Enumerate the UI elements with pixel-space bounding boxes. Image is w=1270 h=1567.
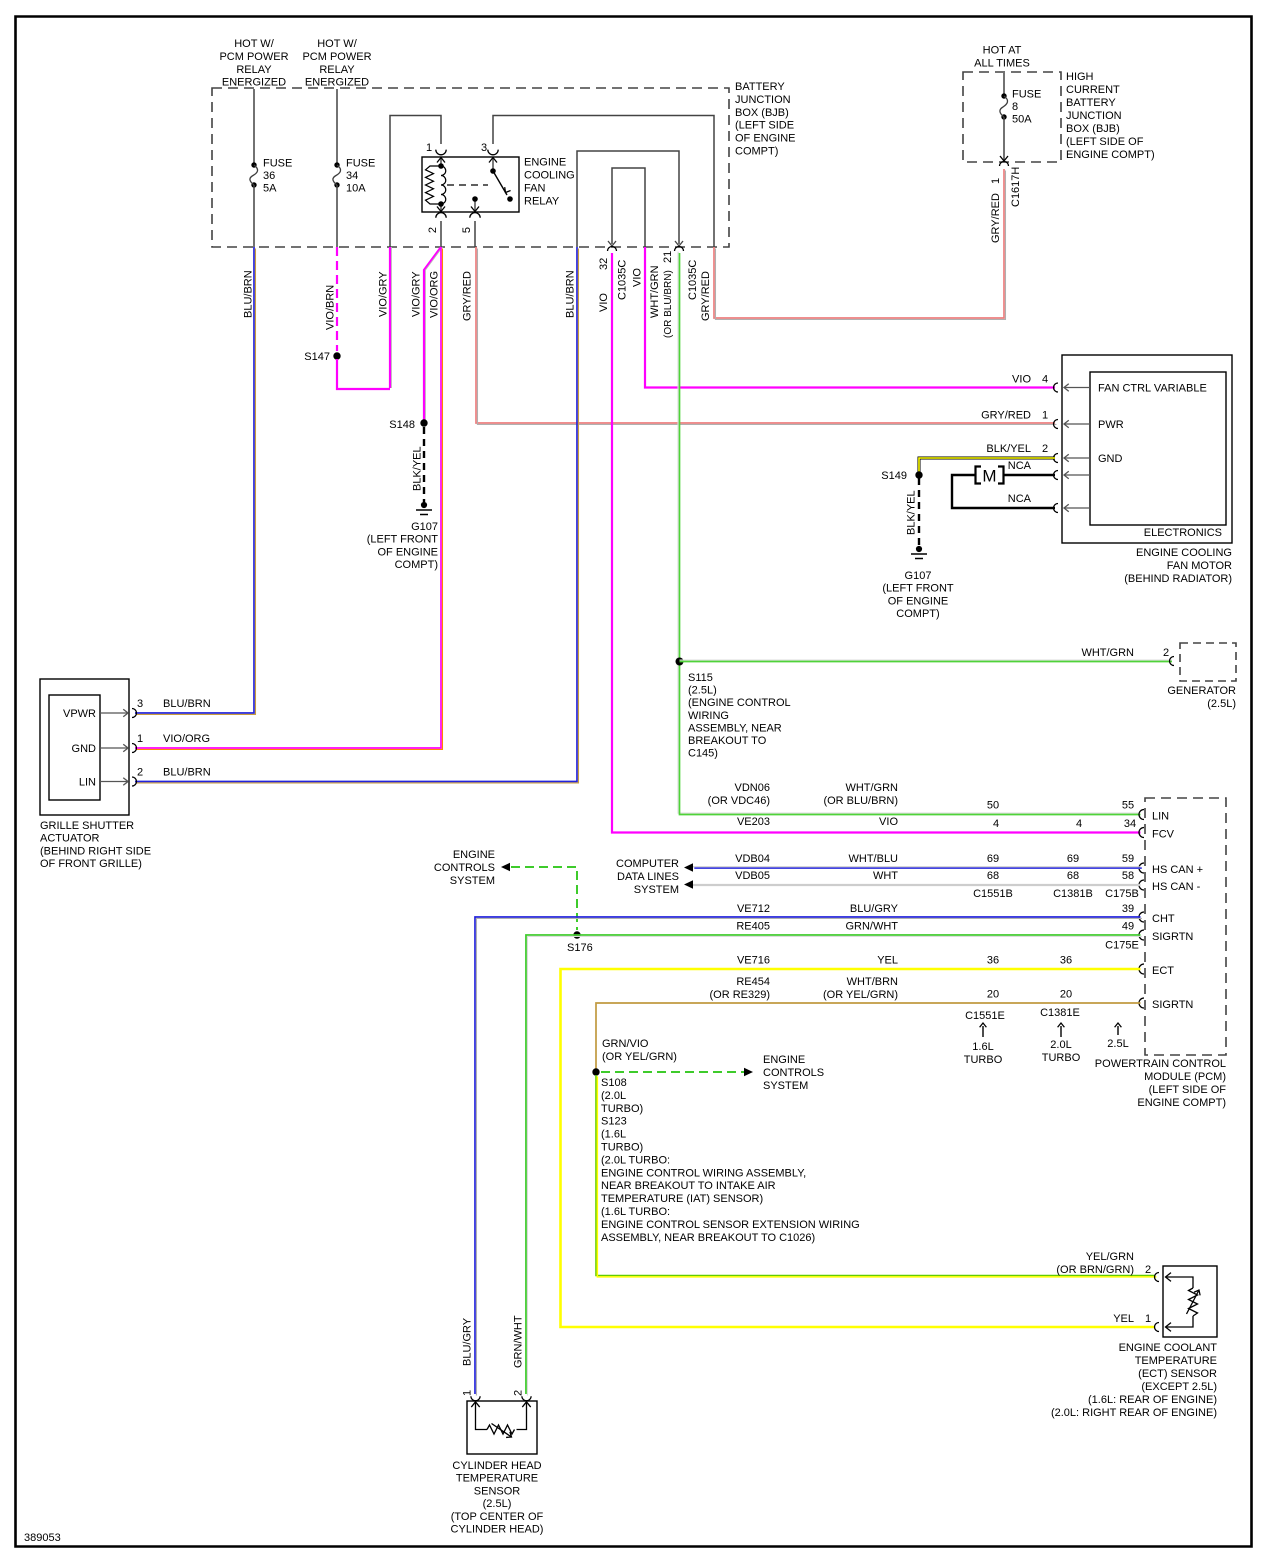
svg-text:GND: GND bbox=[1098, 453, 1123, 465]
wire S147 to VIO/GRY bbox=[337, 359, 390, 389]
connector C1035C pin 21 (arrow and arc) bbox=[675, 241, 683, 246]
relay switch contact dot bbox=[507, 196, 513, 202]
svg-text:(OR YEL/GRN): (OR YEL/GRN) bbox=[823, 989, 898, 1001]
svg-text:BLK/YEL: BLK/YEL bbox=[986, 443, 1031, 455]
svg-text:(2.0L: RIGHT REAR OF ENGINE): (2.0L: RIGHT REAR OF ENGINE) bbox=[1051, 1407, 1217, 1419]
svg-text:SYSTEM: SYSTEM bbox=[763, 1080, 808, 1092]
svg-text:ENGINE COMPT): ENGINE COMPT) bbox=[1137, 1097, 1226, 1109]
svg-text:ENGINE COMPT): ENGINE COMPT) bbox=[1066, 149, 1155, 161]
wire BLK/YEL S148 to ground (dashed) bbox=[423, 427, 425, 502]
svg-text:(BEHIND RIGHT SIDE: (BEHIND RIGHT SIDE bbox=[40, 845, 151, 857]
svg-text:VE712: VE712 bbox=[737, 903, 770, 915]
engine cooling fan motor outer box bbox=[1062, 355, 1232, 543]
svg-text:69: 69 bbox=[1067, 853, 1079, 865]
svg-text:5: 5 bbox=[461, 227, 473, 233]
svg-text:BLK/YEL: BLK/YEL bbox=[412, 446, 424, 491]
svg-text:BLU/BRN: BLU/BRN bbox=[243, 270, 255, 318]
svg-text:HOT AT: HOT AT bbox=[983, 45, 1022, 57]
wire GRY/RED relay pin5 to fan PWR bbox=[476, 247, 1056, 424]
ECT thermistor zigzag bbox=[1189, 1288, 1198, 1316]
svg-text:COMPT): COMPT) bbox=[896, 608, 939, 620]
splice S148 bbox=[420, 419, 427, 426]
splice S176 bbox=[573, 931, 580, 938]
svg-text:DATA LINES: DATA LINES bbox=[617, 871, 679, 883]
svg-text:OF ENGINE: OF ENGINE bbox=[888, 595, 949, 607]
ground G107 (left) bbox=[421, 502, 427, 508]
svg-text:TURBO): TURBO) bbox=[601, 1142, 643, 1154]
svg-text:(LEFT SIDE OF: (LEFT SIDE OF bbox=[1149, 1084, 1227, 1096]
svg-text:ENERGIZED: ENERGIZED bbox=[222, 77, 286, 89]
svg-text:VE203: VE203 bbox=[737, 816, 770, 828]
svg-text:4: 4 bbox=[993, 818, 999, 830]
svg-text:C1035C: C1035C bbox=[687, 260, 699, 300]
svg-text:S148: S148 bbox=[389, 419, 415, 431]
interior wire BLU/BRN riser (LIN feed) bbox=[577, 151, 679, 247]
svg-text:389053: 389053 bbox=[24, 1532, 61, 1544]
arrow 2.0L turbo bbox=[1060, 1026, 1062, 1037]
relay pin 5 connector arc bbox=[470, 213, 480, 218]
svg-text:GRY/RED: GRY/RED bbox=[981, 410, 1031, 422]
grille shutter actuator outer box bbox=[40, 679, 129, 815]
svg-text:NEAR BREAKOUT TO INTAKE AIR: NEAR BREAKOUT TO INTAKE AIR bbox=[601, 1180, 776, 1192]
svg-text:WHT/BRN: WHT/BRN bbox=[847, 976, 898, 988]
ECT interior wiring and arrows bbox=[1166, 1277, 1193, 1288]
svg-text:8: 8 bbox=[1012, 101, 1018, 113]
svg-text:ENGINE: ENGINE bbox=[524, 157, 566, 169]
svg-text:10A: 10A bbox=[346, 183, 366, 195]
ECT thermistor arrow bbox=[1187, 1290, 1200, 1314]
svg-text:2: 2 bbox=[427, 227, 439, 233]
svg-text:WHT/GRN: WHT/GRN bbox=[649, 265, 661, 318]
svg-text:OF ENGINE: OF ENGINE bbox=[735, 133, 796, 145]
arrow to engine controls system (lower) bbox=[744, 1068, 753, 1076]
svg-text:(1.6L TURBO:: (1.6L TURBO: bbox=[601, 1206, 670, 1218]
relay coil scallops bbox=[441, 166, 446, 204]
svg-text:34: 34 bbox=[346, 170, 358, 182]
svg-text:C1551E: C1551E bbox=[965, 1010, 1005, 1022]
CHT interior wiring and arrows bbox=[476, 1402, 488, 1430]
svg-text:VIO/GRY: VIO/GRY bbox=[378, 271, 390, 317]
svg-text:VDB05: VDB05 bbox=[735, 870, 770, 882]
fuse 34 feed wire bbox=[336, 89, 338, 163]
wire VIO/BRN fuse34 to splice S147 (dashed) bbox=[336, 247, 338, 351]
svg-text:WHT/BLU: WHT/BLU bbox=[849, 853, 899, 865]
arrow to engine controls system (upper) bbox=[501, 863, 510, 871]
svg-text:SIGRTN: SIGRTN bbox=[1152, 931, 1193, 943]
svg-text:3: 3 bbox=[137, 698, 143, 710]
svg-text:BOX (BJB): BOX (BJB) bbox=[735, 107, 789, 119]
wire BLU/BRN to grille LIN bbox=[135, 247, 578, 783]
relay pin 2 connector arc bbox=[436, 213, 446, 218]
PCM pins (arcs and pin names) bbox=[1139, 810, 1144, 820]
svg-text:VIO/ORG: VIO/ORG bbox=[163, 733, 210, 745]
svg-text:68: 68 bbox=[1067, 870, 1079, 882]
svg-text:(LEFT SIDE OF: (LEFT SIDE OF bbox=[1066, 136, 1144, 148]
svg-text:S176: S176 bbox=[567, 942, 593, 954]
wire relay pin3 to BJB right (interior) bbox=[493, 116, 714, 248]
svg-text:(1.6L: REAR OF ENGINE): (1.6L: REAR OF ENGINE) bbox=[1088, 1394, 1217, 1406]
svg-text:ENGINE CONTROL WIRING ASSEMBLY: ENGINE CONTROL WIRING ASSEMBLY, bbox=[601, 1167, 806, 1179]
svg-text:RELAY: RELAY bbox=[524, 196, 560, 208]
svg-text:FCV: FCV bbox=[1152, 829, 1175, 841]
wire WHT/GRN S115 to generator bbox=[680, 659, 1173, 661]
svg-text:ENGINE: ENGINE bbox=[763, 1054, 805, 1066]
relay pin 1 interior stub with arrow bbox=[440, 158, 442, 166]
wire GRN/VIO S108 to ECT sensor bbox=[596, 1075, 1156, 1277]
svg-text:RELAY: RELAY bbox=[319, 64, 355, 76]
svg-text:BATTERY: BATTERY bbox=[1066, 97, 1116, 109]
svg-text:3: 3 bbox=[481, 142, 487, 154]
wire YEL PCM ECT to ECT sensor bbox=[561, 969, 1156, 1327]
svg-text:FUSE: FUSE bbox=[346, 158, 375, 170]
svg-text:GRY/RED: GRY/RED bbox=[462, 271, 474, 321]
svg-text:5A: 5A bbox=[263, 183, 277, 195]
svg-text:(LEFT FRONT: (LEFT FRONT bbox=[367, 534, 439, 546]
wire VIO/GRY relay pin2 to splice S148 bbox=[424, 247, 441, 420]
svg-text:NCA: NCA bbox=[1008, 460, 1032, 472]
svg-text:VIO: VIO bbox=[632, 268, 644, 287]
ECT pin 2 arc bbox=[1155, 1273, 1159, 1282]
svg-text:VIO/GRY: VIO/GRY bbox=[411, 271, 423, 317]
svg-text:C175B: C175B bbox=[1105, 888, 1139, 900]
svg-text:SYSTEM: SYSTEM bbox=[634, 884, 679, 896]
wire GRN/WHT CHT sensor to PCM SIGRTN bbox=[526, 935, 1141, 1394]
svg-text:GRY/RED: GRY/RED bbox=[700, 271, 712, 321]
svg-text:ECT: ECT bbox=[1152, 965, 1174, 977]
svg-text:(TOP CENTER OF: (TOP CENTER OF bbox=[451, 1511, 544, 1523]
svg-text:JUNCTION: JUNCTION bbox=[735, 94, 791, 106]
svg-text:32: 32 bbox=[598, 258, 610, 270]
wire BLU/BRN fuse36 to grille VPWR bbox=[135, 247, 255, 714]
engine coolant temperature (ECT) sensor box bbox=[1163, 1266, 1217, 1337]
svg-text:COMPT): COMPT) bbox=[395, 559, 438, 571]
wire GRN/WHT dashed to engine controls bbox=[511, 867, 577, 930]
svg-text:(LEFT FRONT: (LEFT FRONT bbox=[882, 583, 954, 595]
svg-text:68: 68 bbox=[987, 870, 999, 882]
svg-text:(EXCEPT 2.5L): (EXCEPT 2.5L) bbox=[1141, 1381, 1217, 1393]
svg-text:BLK/YEL: BLK/YEL bbox=[906, 490, 918, 535]
svg-text:(2.5L): (2.5L) bbox=[688, 685, 717, 697]
svg-text:COOLING: COOLING bbox=[524, 170, 575, 182]
svg-text:VDN06: VDN06 bbox=[735, 782, 770, 794]
svg-text:TEMPERATURE: TEMPERATURE bbox=[1135, 1355, 1217, 1367]
svg-text:ENGINE: ENGINE bbox=[453, 849, 495, 861]
svg-text:BATTERY: BATTERY bbox=[735, 81, 785, 93]
wire fuse 34 to BJB edge bbox=[336, 185, 338, 247]
fan motor pins (arcs, interior arrows, pin names) bbox=[1054, 383, 1059, 392]
arrow to computer data lines (VDB04) bbox=[684, 863, 693, 871]
svg-text:(1.6L: (1.6L bbox=[601, 1129, 626, 1141]
svg-text:YEL/GRN: YEL/GRN bbox=[1086, 1251, 1134, 1263]
svg-text:2.5L: 2.5L bbox=[1107, 1038, 1128, 1050]
svg-text:RE454: RE454 bbox=[736, 976, 770, 988]
splice S108 bbox=[592, 1068, 599, 1075]
svg-text:RELAY: RELAY bbox=[236, 64, 272, 76]
wire WHT/BLU VDB04 to PCM HS CAN + bbox=[693, 867, 1142, 868]
ECT pin 1 arc bbox=[1155, 1323, 1159, 1332]
svg-text:HOT W/: HOT W/ bbox=[317, 38, 357, 50]
svg-text:(OR BRN/GRN): (OR BRN/GRN) bbox=[1056, 1264, 1134, 1276]
svg-text:NCA: NCA bbox=[1008, 493, 1032, 505]
svg-text:36: 36 bbox=[263, 170, 275, 182]
svg-text:ALL TIMES: ALL TIMES bbox=[974, 58, 1030, 70]
generator dashed box bbox=[1180, 643, 1236, 681]
svg-text:36: 36 bbox=[987, 955, 999, 967]
svg-text:BLU/GRY: BLU/GRY bbox=[462, 1317, 474, 1366]
svg-text:VIO: VIO bbox=[879, 816, 898, 828]
fuse 36 feed wire bbox=[253, 89, 255, 163]
svg-text:C1381B: C1381B bbox=[1053, 888, 1093, 900]
svg-text:HOT W/: HOT W/ bbox=[234, 38, 274, 50]
svg-text:HIGH: HIGH bbox=[1066, 71, 1094, 83]
wire NCA loop to lower pin (thick) bbox=[952, 475, 1055, 508]
svg-text:ELECTRONICS: ELECTRONICS bbox=[1144, 527, 1222, 539]
connector C1617H arc bbox=[1000, 162, 1009, 167]
svg-text:G107: G107 bbox=[905, 570, 932, 582]
svg-text:FAN: FAN bbox=[524, 183, 545, 195]
high current BJB dashed outline bbox=[963, 72, 1061, 162]
svg-text:(ECT) SENSOR: (ECT) SENSOR bbox=[1138, 1368, 1217, 1380]
fuse F8 (8, 50A) bbox=[1001, 93, 1006, 98]
svg-text:VIO/BRN: VIO/BRN bbox=[325, 285, 337, 330]
relay pin 3 interior stub with arrow bbox=[492, 158, 494, 171]
svg-text:HS CAN +: HS CAN + bbox=[1152, 864, 1203, 876]
svg-text:(OR BLU/BRN): (OR BLU/BRN) bbox=[663, 270, 674, 338]
svg-text:TURBO: TURBO bbox=[964, 1054, 1003, 1066]
svg-text:CHT: CHT bbox=[1152, 913, 1175, 925]
fan motor electronics inner box bbox=[1090, 372, 1226, 525]
svg-text:GRN/WHT: GRN/WHT bbox=[513, 1315, 525, 1368]
svg-text:ENERGIZED: ENERGIZED bbox=[305, 77, 369, 89]
svg-text:WHT: WHT bbox=[873, 870, 898, 882]
svg-text:M: M bbox=[982, 467, 996, 486]
svg-text:(2.0L: (2.0L bbox=[601, 1090, 626, 1102]
svg-text:VDB04: VDB04 bbox=[735, 853, 770, 865]
svg-text:GRN/WHT: GRN/WHT bbox=[845, 921, 898, 933]
svg-text:BOX (BJB): BOX (BJB) bbox=[1066, 123, 1120, 135]
svg-text:2: 2 bbox=[1163, 647, 1169, 659]
wire VIO/GRY relay pin1 branch bbox=[389, 247, 391, 388]
svg-text:OF FRONT GRILLE): OF FRONT GRILLE) bbox=[40, 858, 142, 870]
svg-text:S115: S115 bbox=[688, 672, 713, 684]
svg-text:1: 1 bbox=[137, 733, 143, 745]
svg-text:POWERTRAIN CONTROL: POWERTRAIN CONTROL bbox=[1095, 1058, 1226, 1070]
svg-text:20: 20 bbox=[1060, 989, 1072, 1001]
interior wire VIO riser pair bbox=[612, 168, 645, 247]
svg-text:LIN: LIN bbox=[1152, 811, 1169, 823]
svg-text:BLU/BRN: BLU/BRN bbox=[163, 767, 211, 779]
relay pin 2 interior stub with arrow bbox=[440, 204, 442, 211]
svg-text:(2.0L TURBO:: (2.0L TURBO: bbox=[601, 1154, 670, 1166]
svg-text:VPWR: VPWR bbox=[63, 708, 96, 720]
svg-text:69: 69 bbox=[987, 853, 999, 865]
svg-text:(2.5L): (2.5L) bbox=[483, 1498, 512, 1510]
svg-text:2: 2 bbox=[1042, 443, 1048, 455]
svg-text:20: 20 bbox=[987, 989, 999, 1001]
svg-text:36: 36 bbox=[1060, 955, 1072, 967]
wire fuse 36 to BJB edge bbox=[253, 185, 255, 247]
svg-text:TEMPERATURE (IAT) SENSOR): TEMPERATURE (IAT) SENSOR) bbox=[601, 1193, 763, 1205]
svg-text:(OR RE329): (OR RE329) bbox=[709, 989, 770, 1001]
svg-text:MODULE (PCM): MODULE (PCM) bbox=[1144, 1071, 1226, 1083]
svg-text:VIO: VIO bbox=[1012, 374, 1031, 386]
svg-text:TURBO: TURBO bbox=[1042, 1052, 1081, 1064]
fuse 8 feed wire bbox=[1003, 73, 1005, 94]
svg-text:PCM POWER: PCM POWER bbox=[302, 51, 371, 63]
powertrain control module (PCM) dashed box bbox=[1145, 798, 1226, 1055]
svg-text:SENSOR: SENSOR bbox=[474, 1485, 521, 1497]
svg-text:(2.5L): (2.5L) bbox=[1207, 698, 1236, 710]
arrow 1.6L turbo bbox=[982, 1026, 984, 1037]
wire VIO pin32 to PCM FCV bbox=[612, 253, 1141, 833]
svg-text:(OR VDC46): (OR VDC46) bbox=[708, 795, 770, 807]
grille shutter actuator inner box bbox=[49, 695, 100, 800]
svg-text:1.6L: 1.6L bbox=[972, 1041, 993, 1053]
fuse F34 (34, 10A) bbox=[334, 162, 339, 167]
svg-text:BLU/BRN: BLU/BRN bbox=[565, 270, 577, 318]
wire relay pin1 to BJB edge (interior) bbox=[390, 116, 441, 248]
svg-text:LIN: LIN bbox=[79, 777, 96, 789]
svg-text:GENERATOR: GENERATOR bbox=[1167, 685, 1236, 697]
wire VIO to fan control bbox=[645, 247, 1055, 388]
splice S147 bbox=[333, 352, 340, 359]
relay pin 5 interior stub with arrow bbox=[474, 199, 476, 211]
svg-text:1: 1 bbox=[1145, 1313, 1151, 1325]
svg-text:1: 1 bbox=[426, 142, 432, 154]
svg-text:(BEHIND RADIATOR): (BEHIND RADIATOR) bbox=[1124, 573, 1232, 585]
svg-text:BREAKOUT TO: BREAKOUT TO bbox=[688, 735, 767, 747]
svg-text:2: 2 bbox=[1145, 1264, 1151, 1276]
svg-text:ASSEMBLY, NEAR: ASSEMBLY, NEAR bbox=[688, 722, 782, 734]
svg-text:C1035C: C1035C bbox=[617, 260, 629, 300]
wire GRY/RED BJB to fuse8 C1617H bbox=[714, 169, 1005, 319]
svg-text:FAN CTRL VARIABLE: FAN CTRL VARIABLE bbox=[1098, 383, 1207, 395]
svg-text:FUSE: FUSE bbox=[263, 158, 292, 170]
svg-text:S123: S123 bbox=[601, 1116, 627, 1128]
svg-text:C145): C145) bbox=[688, 748, 718, 760]
svg-text:1: 1 bbox=[990, 178, 1002, 184]
svg-text:COMPT): COMPT) bbox=[735, 146, 778, 158]
svg-text:C1617H: C1617H bbox=[1010, 167, 1022, 207]
svg-text:VIO: VIO bbox=[598, 293, 610, 312]
svg-text:(OR YEL/GRN): (OR YEL/GRN) bbox=[602, 1051, 677, 1063]
svg-text:4: 4 bbox=[1042, 374, 1048, 386]
svg-text:S108: S108 bbox=[601, 1077, 627, 1089]
svg-text:1: 1 bbox=[1042, 410, 1048, 422]
svg-text:OF ENGINE: OF ENGINE bbox=[377, 546, 438, 558]
svg-text:SIGRTN: SIGRTN bbox=[1152, 999, 1193, 1011]
relay internal dashed link bbox=[447, 184, 488, 186]
svg-text:ASSEMBLY, NEAR BREAKOUT TO C10: ASSEMBLY, NEAR BREAKOUT TO C1026) bbox=[601, 1232, 815, 1244]
battery junction box (BJB) dashed outline bbox=[212, 88, 729, 247]
svg-text:PCM POWER: PCM POWER bbox=[219, 51, 288, 63]
svg-text:G107: G107 bbox=[411, 521, 438, 533]
svg-text:GRN/VIO: GRN/VIO bbox=[602, 1038, 649, 1050]
fuse F36 (36, 5A) bbox=[251, 162, 256, 167]
svg-text:WHT/GRN: WHT/GRN bbox=[1081, 647, 1134, 659]
generator pin 2 arc bbox=[1170, 657, 1175, 666]
svg-text:CURRENT: CURRENT bbox=[1066, 84, 1120, 96]
svg-text:2: 2 bbox=[513, 1390, 525, 1396]
wire WHT VDB05 to PCM HS CAN - bbox=[693, 884, 1141, 886]
svg-text:CYLINDER HEAD: CYLINDER HEAD bbox=[452, 1460, 541, 1472]
wire fuse 8 to C1617H bbox=[1003, 117, 1005, 160]
svg-text:50A: 50A bbox=[1012, 114, 1032, 126]
svg-text:YEL: YEL bbox=[877, 955, 898, 967]
engine cooling fan relay box bbox=[422, 157, 519, 212]
svg-text:C175E: C175E bbox=[1105, 940, 1139, 952]
svg-text:C1551B: C1551B bbox=[973, 888, 1013, 900]
svg-text:4: 4 bbox=[1076, 818, 1082, 830]
svg-text:BLU/BRN: BLU/BRN bbox=[163, 698, 211, 710]
svg-text:FUSE: FUSE bbox=[1012, 89, 1041, 101]
svg-text:FAN MOTOR: FAN MOTOR bbox=[1167, 560, 1232, 572]
wire BLU/GRY CHT sensor to PCM CHT bbox=[475, 917, 1142, 1395]
splice S149 bbox=[915, 471, 922, 478]
svg-text:(OR BLU/BRN): (OR BLU/BRN) bbox=[823, 795, 898, 807]
svg-text:S149: S149 bbox=[881, 470, 907, 482]
svg-text:C1381E: C1381E bbox=[1040, 1007, 1080, 1019]
svg-text:JUNCTION: JUNCTION bbox=[1066, 110, 1122, 122]
svg-text:55: 55 bbox=[1122, 800, 1134, 812]
svg-text:ENGINE COOLING: ENGINE COOLING bbox=[1136, 547, 1232, 559]
svg-text:TEMPERATURE: TEMPERATURE bbox=[456, 1473, 538, 1485]
relay pin 5 contact dot bbox=[472, 196, 478, 202]
svg-text:ACTUATOR: ACTUATOR bbox=[40, 833, 100, 845]
svg-text:CONTROLS: CONTROLS bbox=[434, 862, 495, 874]
svg-text:VIO/ORG: VIO/ORG bbox=[429, 271, 441, 318]
ground G107 (right) bbox=[916, 546, 922, 552]
relay pin 1 connector arc bbox=[436, 150, 446, 155]
svg-text:2: 2 bbox=[137, 767, 143, 779]
svg-text:1: 1 bbox=[462, 1390, 474, 1396]
wire WHT/BRN PCM SIGRTN to S108 bbox=[596, 1003, 1141, 1069]
cylinder head temperature sensor box bbox=[467, 1401, 537, 1454]
svg-text:49: 49 bbox=[1122, 921, 1134, 933]
svg-text:CONTROLS: CONTROLS bbox=[763, 1067, 824, 1079]
wire relay pin2 stub to BJB edge bbox=[440, 221, 442, 247]
svg-text:SYSTEM: SYSTEM bbox=[450, 875, 495, 887]
svg-text:39: 39 bbox=[1122, 903, 1134, 915]
splice S115 bbox=[676, 658, 684, 666]
wire BLK/YEL fan GND to S149 bbox=[919, 458, 1055, 472]
svg-text:50: 50 bbox=[987, 800, 999, 812]
svg-text:RE405: RE405 bbox=[736, 921, 770, 933]
relay switch common dot bbox=[490, 168, 496, 174]
wire VIO/ORG relay pin2 to grille GND bbox=[135, 247, 442, 749]
relay pin 3 connector arc bbox=[488, 150, 498, 155]
connector C1035C pin 32 (arrow and arc) bbox=[608, 241, 616, 246]
CHT pin 1 arc bbox=[471, 1396, 480, 1401]
svg-text:VE716: VE716 bbox=[737, 955, 770, 967]
svg-text:YEL: YEL bbox=[1113, 1313, 1134, 1325]
svg-text:GND: GND bbox=[72, 743, 97, 755]
svg-text:(ENGINE CONTROL: (ENGINE CONTROL bbox=[688, 697, 791, 709]
wire relay pin5 stub to BJB edge bbox=[474, 221, 476, 247]
svg-text:ENGINE CONTROL SENSOR EXTENSIO: ENGINE CONTROL SENSOR EXTENSION WIRING bbox=[601, 1219, 860, 1231]
svg-text:COMPUTER: COMPUTER bbox=[616, 858, 679, 870]
svg-text:58: 58 bbox=[1122, 870, 1134, 882]
svg-text:GRY/RED: GRY/RED bbox=[990, 193, 1002, 243]
svg-text:WHT/GRN: WHT/GRN bbox=[845, 782, 898, 794]
svg-text:59: 59 bbox=[1122, 853, 1134, 865]
wire GRN/VIO dashed to engine controls (lower) bbox=[601, 1071, 747, 1073]
wire BLK/YEL S149 to ground (dashed) bbox=[918, 478, 920, 546]
svg-text:GRILLE SHUTTER: GRILLE SHUTTER bbox=[40, 820, 134, 832]
arrow to computer data lines (VDB05) bbox=[684, 880, 693, 888]
svg-text:(LEFT SIDE: (LEFT SIDE bbox=[735, 120, 794, 132]
relay coil resistor zigzag bbox=[426, 166, 442, 204]
